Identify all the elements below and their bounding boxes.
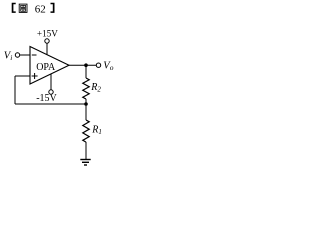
svg-text:-15V: -15V: [36, 93, 57, 104]
wire output: [69, 64, 96, 66]
wire V- pin: [50, 74, 52, 90]
wire junction to R1: [85, 104, 87, 120]
title bracket left 【: [12, 3, 16, 13]
svg-text:Vo: Vo: [103, 61, 113, 73]
svg-text:Vi: Vi: [4, 51, 13, 63]
terminal circle Vi: [15, 53, 19, 57]
wire feedback bottom horizontal: [15, 103, 86, 105]
wire noninverting input feedback left: [15, 75, 30, 77]
title boxed char 圖: [19, 4, 27, 12]
wire R1 to ground: [85, 142, 87, 160]
wire R2 to junction: [85, 99, 87, 104]
resistor R1 zigzag: [83, 120, 89, 142]
terminal circle -15V: [49, 90, 53, 94]
terminal circle Vo: [96, 63, 100, 67]
wire feedback vertical: [14, 76, 16, 104]
svg-text:OPA: OPA: [36, 62, 56, 73]
junction node R2/R1: [84, 102, 88, 106]
op-amp minus input sign: [32, 54, 37, 56]
svg-text:+15V: +15V: [37, 28, 58, 38]
terminal circle +15V: [45, 39, 49, 43]
wire V+ pin: [46, 43, 48, 55]
resistor R2 zigzag: [83, 78, 89, 99]
ground: [80, 160, 90, 166]
junction node output: [84, 63, 88, 67]
wire Vi to inverting input: [20, 54, 30, 56]
op-amp plus input sign: [32, 73, 38, 79]
op-amp U1 triangle: [30, 47, 69, 85]
svg-text:62: 62: [35, 3, 46, 15]
title bracket right 】: [51, 3, 55, 13]
wire output to R2: [85, 65, 87, 78]
